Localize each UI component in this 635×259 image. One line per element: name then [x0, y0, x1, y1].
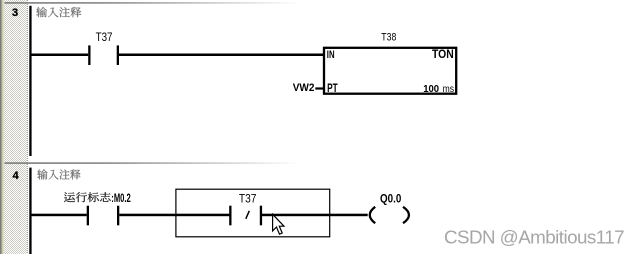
- svg-text:IN: IN: [327, 49, 335, 62]
- network 3 separator line: [5, 2, 635, 4]
- wire: contact M0.2 to contact T37: [119, 214, 229, 217]
- svg-text:3: 3: [12, 7, 18, 19]
- network 4 separator line: [5, 162, 635, 164]
- selection box around T37 contact: [176, 189, 330, 237]
- svg-text:T37: T37: [96, 31, 113, 44]
- wire: VW2 to PT pin: [315, 87, 323, 89]
- svg-text:T37: T37: [239, 193, 257, 206]
- svg-text:4: 4: [13, 170, 20, 182]
- svg-text:T38: T38: [381, 32, 396, 44]
- network 4 comment 输入注释: [37, 169, 80, 179]
- network 3 comment 输入注释: [36, 7, 81, 17]
- svg-text:TON: TON: [432, 49, 454, 62]
- mouse cursor: [273, 214, 284, 234]
- svg-text:CSDN @Ambitious117: CSDN @Ambitious117: [444, 226, 624, 247]
- svg-text:100: 100: [423, 84, 439, 95]
- svg-text:ms: ms: [443, 83, 455, 94]
- wire: contact T37 to timer block: [119, 54, 324, 57]
- wire: rail to contact M0.2: [30, 214, 87, 217]
- coil Q0.0 right arc: [403, 207, 409, 223]
- svg-text:VW2: VW2: [293, 81, 315, 94]
- timer block T38 TON box: [324, 48, 456, 94]
- window left border strip: [0, 0, 5, 254]
- coil Q0.0 left arc: [370, 207, 375, 223]
- wire: rail to contact T37: [30, 54, 88, 57]
- svg-text::M0.2: :M0.2: [111, 193, 131, 206]
- svg-text:Q0.0: Q0.0: [380, 193, 401, 206]
- NC contact slash: [246, 211, 250, 219]
- contact M0.2 (normally open): [87, 206, 89, 226]
- contact T37 (normally closed): [229, 206, 231, 226]
- contact T37 (normally open): [88, 45, 90, 65]
- network 4 left power rail: [29, 168, 31, 254]
- wire: contact T37 to coil: [262, 214, 368, 217]
- operand label 运行标志: [64, 192, 111, 202]
- network number margin column: [5, 0, 28, 254]
- network 3 left power rail: [29, 6, 31, 156]
- svg-text:PT: PT: [327, 82, 338, 95]
